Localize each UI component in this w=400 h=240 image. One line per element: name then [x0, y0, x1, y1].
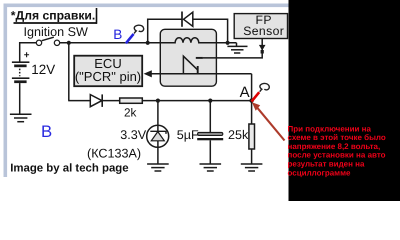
capacitor bottom plate — [197, 138, 223, 140]
svg-text:При подключении на: При подключении на — [288, 124, 372, 133]
svg-text:B: B — [113, 27, 122, 42]
switch blade — [42, 37, 54, 41]
svg-text:Image by al tech page: Image by al tech page — [10, 162, 128, 174]
left blue stripe — [4, 4, 8, 178]
relay upper contact dash — [196, 57, 203, 59]
svg-text:результат виден на: результат виден на — [288, 160, 366, 169]
bottom rail wire — [68, 100, 251, 102]
relay common wire (to ECU and node A branch) — [151, 73, 251, 75]
resistor 25k — [249, 124, 255, 149]
svg-text:осциллограмме: осциллограмме — [288, 168, 352, 177]
diode D2 triangle — [90, 95, 102, 107]
svg-text:A: A — [240, 84, 250, 101]
node diode/ground junction — [226, 41, 230, 45]
relay switch pole — [183, 56, 197, 74]
ground cap — [200, 164, 222, 171]
relay box K1 — [160, 29, 216, 86]
node zener junction — [156, 99, 160, 103]
ground battery — [10, 114, 32, 122]
cap to ground wire — [209, 140, 211, 164]
svg-text:Sensor: Sensor — [243, 24, 284, 38]
relay lower contact tick — [197, 66, 199, 74]
ground zener — [147, 164, 169, 171]
node cap junction — [208, 99, 212, 103]
node junction at ignition branch — [67, 41, 71, 45]
ECU box — [74, 56, 142, 86]
red annotation text — [288, 124, 386, 177]
diode D1 triangle — [184, 12, 193, 26]
probe at node A — [252, 83, 270, 101]
diode D2 cathode bar — [101, 94, 103, 107]
diode D1 (cathode bar) — [181, 12, 183, 27]
zener branch wire — [157, 101, 159, 164]
wire upper contact to FP sensor — [203, 39, 262, 58]
wire switch to relay box — [60, 42, 161, 44]
wire battery top to switch — [20, 43, 37, 62]
svg-text:5µF: 5µF — [177, 128, 199, 142]
svg-text:схеме в этой точке было: схеме в этой точке было — [288, 133, 386, 142]
ground top right — [227, 43, 247, 53]
resistor to ground wire — [251, 149, 253, 164]
ground 25k — [241, 164, 263, 171]
node B junction — [146, 41, 150, 45]
wire ignition branch down — [68, 43, 70, 101]
svg-text:Ignition SW: Ignition SW — [24, 25, 89, 39]
svg-text:2k: 2k — [124, 106, 137, 120]
svg-text:("PCR" pin): ("PCR" pin) — [75, 69, 141, 84]
FP sensor box — [234, 14, 287, 39]
cap branch wire — [209, 101, 211, 133]
probe at node B — [126, 25, 144, 43]
svg-text:напряжение 8,2 вольта,: напряжение 8,2 вольта, — [288, 142, 381, 151]
red annotation arrow to node A — [252, 102, 285, 140]
svg-text:B: B — [41, 122, 52, 141]
switch SW1 contact circles — [36, 40, 41, 45]
top blue stripe — [4, 4, 289, 8]
relay coil — [160, 38, 216, 43]
svg-text:*Для справки.: *Для справки. — [11, 9, 96, 23]
wire diode D1 to ground corner — [193, 19, 228, 43]
black annotation panel — [289, 0, 400, 201]
svg-text:12V: 12V — [31, 62, 55, 77]
svg-text:после установки на авто: после установки на авто — [288, 151, 386, 160]
wire battery to ground — [19, 83, 21, 114]
wire relay to right ground — [216, 42, 236, 44]
resistor 2k — [120, 98, 143, 103]
battery BT1 12V — [12, 50, 30, 83]
FP sensor arrow down — [259, 45, 266, 51]
zener cathode bar — [150, 131, 166, 134]
zener triangle — [151, 132, 164, 141]
svg-text:(КС133А): (КС133А) — [87, 146, 141, 160]
wire node B up to diode D1 — [148, 19, 182, 43]
wire node A down to resistor — [251, 101, 253, 124]
capacitor 5uF top plate — [198, 132, 223, 135]
node A branch from relay — [251, 74, 253, 101]
note label "Для справки" box — [11, 8, 97, 24]
node A junction — [249, 98, 253, 102]
svg-text:+: + — [24, 50, 30, 61]
svg-text:25k: 25k — [228, 128, 249, 142]
svg-text:3.3V: 3.3V — [120, 128, 147, 142]
zener diode VD1 circle — [147, 125, 169, 147]
arrow into ECU — [144, 70, 152, 77]
